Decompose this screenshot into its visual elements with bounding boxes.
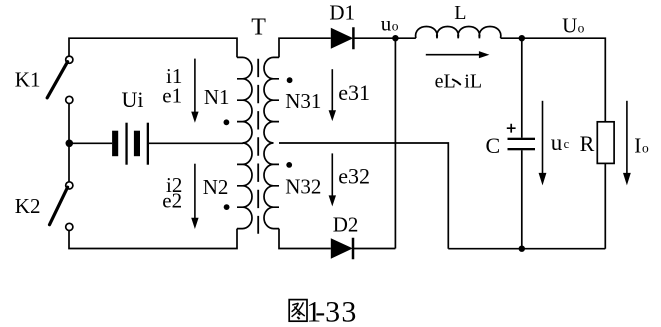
svg-text:D1: D1 bbox=[329, 0, 355, 24]
svg-text:K2: K2 bbox=[15, 194, 41, 218]
svg-text:u: u bbox=[381, 11, 392, 35]
svg-text:o: o bbox=[578, 21, 585, 36]
svg-text:3: 3 bbox=[325, 295, 340, 327]
svg-text:T: T bbox=[251, 15, 266, 41]
svg-text:e1: e1 bbox=[162, 84, 182, 108]
svg-text:e31: e31 bbox=[338, 80, 370, 105]
svg-text:Ui: Ui bbox=[122, 87, 144, 112]
svg-text:I: I bbox=[634, 133, 641, 157]
svg-text:K1: K1 bbox=[15, 67, 41, 91]
svg-text:e32: e32 bbox=[338, 163, 370, 188]
svg-text:o: o bbox=[392, 18, 399, 33]
svg-text:U: U bbox=[562, 14, 577, 38]
svg-text:N1: N1 bbox=[204, 85, 230, 109]
svg-text:3: 3 bbox=[341, 295, 356, 327]
svg-text:c: c bbox=[564, 137, 570, 151]
svg-text:e2: e2 bbox=[162, 189, 182, 213]
svg-text:N31: N31 bbox=[285, 89, 321, 113]
svg-text:L: L bbox=[454, 2, 466, 24]
svg-text:N32: N32 bbox=[285, 174, 321, 198]
svg-text:D2: D2 bbox=[333, 212, 359, 236]
svg-text:iL: iL bbox=[464, 71, 482, 93]
svg-text:N2: N2 bbox=[203, 175, 229, 199]
svg-text:o: o bbox=[642, 140, 649, 155]
svg-text:u: u bbox=[551, 130, 563, 155]
svg-text:C: C bbox=[486, 133, 501, 158]
svg-text:R: R bbox=[580, 131, 595, 156]
svg-text:eL: eL bbox=[435, 71, 456, 93]
svg-text:-: - bbox=[315, 295, 325, 327]
